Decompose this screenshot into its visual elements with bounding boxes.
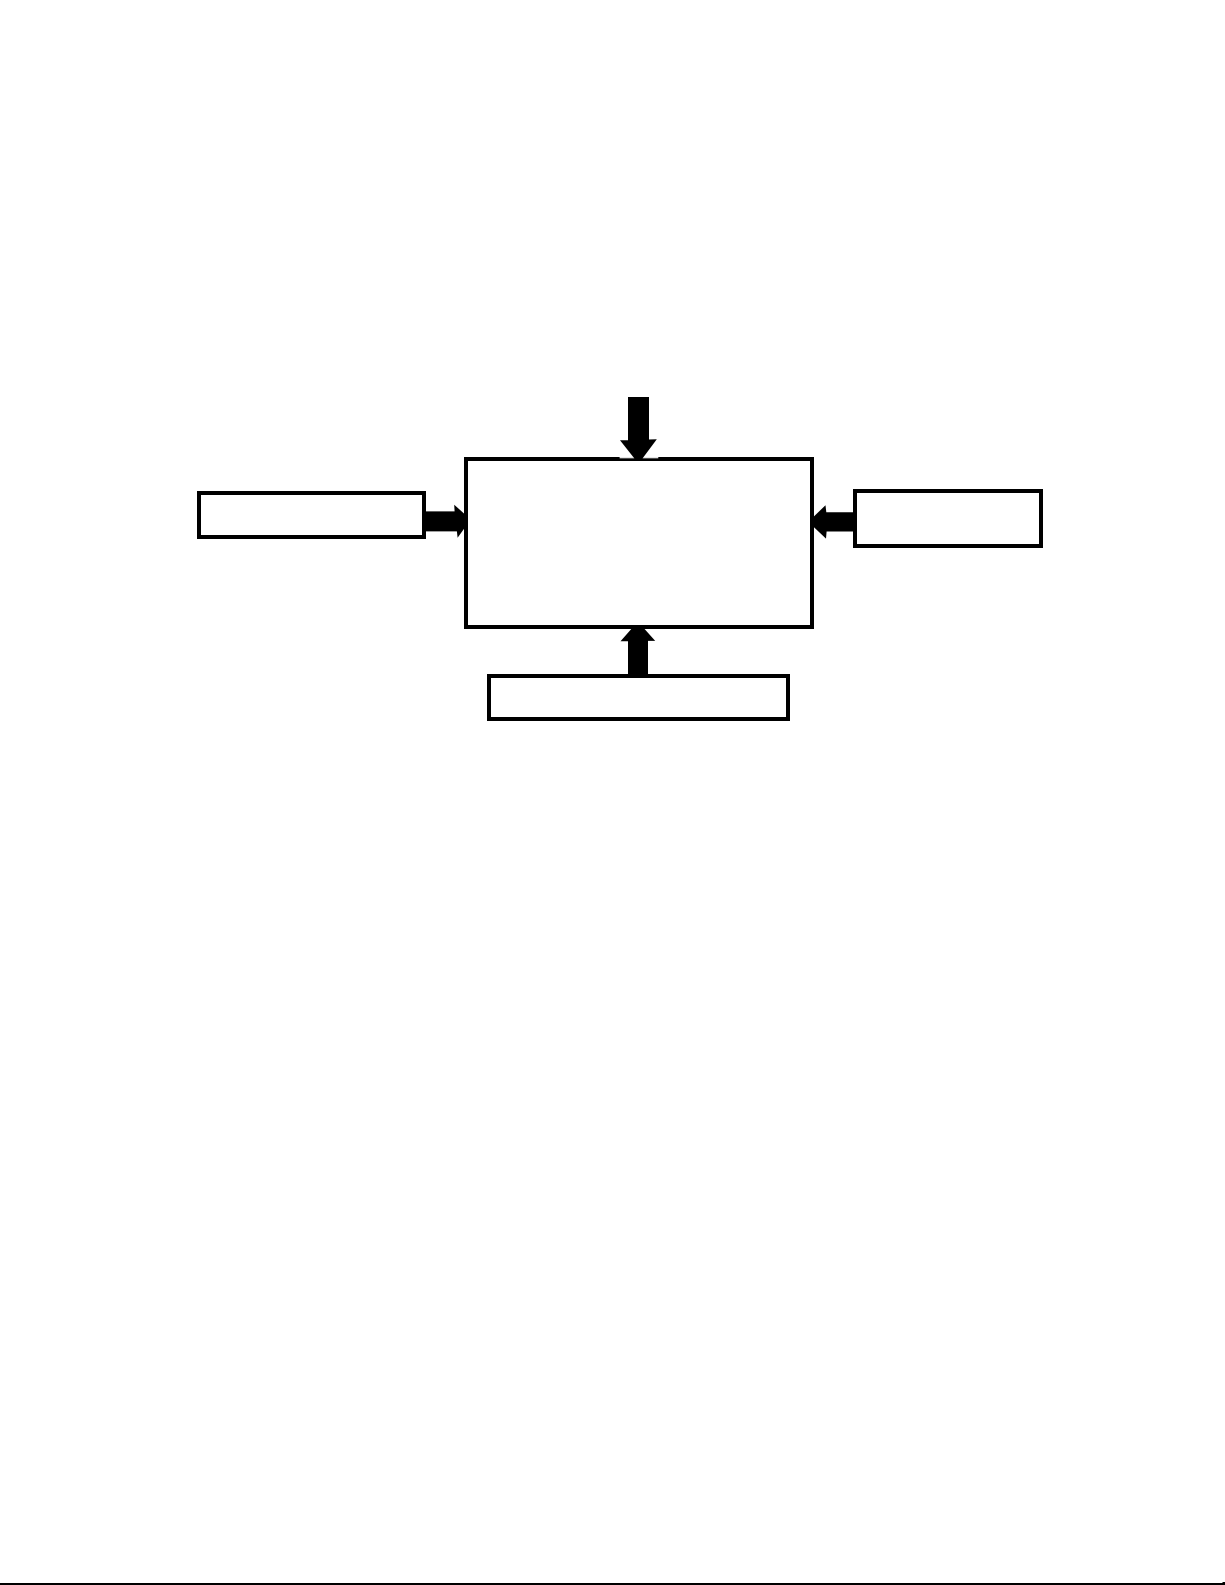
central box <box>466 459 812 627</box>
bottom page-break bar <box>0 1583 1225 1585</box>
right box <box>855 491 1041 546</box>
arrow right (left box into central box) <box>426 505 468 538</box>
arrow left (right box into central box) <box>810 505 854 538</box>
left box <box>199 493 424 537</box>
arrow up (bottom box into central box) <box>621 625 656 675</box>
top border notch under arrowhead <box>620 457 659 458</box>
bottom box <box>489 676 788 719</box>
bottom bar right notch <box>1223 1582 1225 1585</box>
arrow down (top into central box) <box>620 397 657 461</box>
